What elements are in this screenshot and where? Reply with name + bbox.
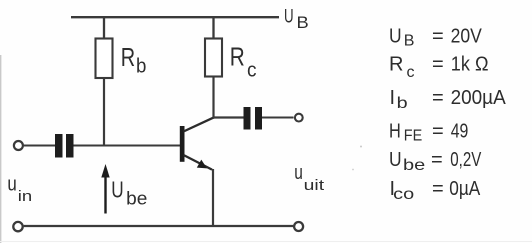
svg-text:1k Ω: 1k Ω <box>451 54 489 76</box>
terminal: output (open circle) <box>295 114 303 122</box>
svg-text:=: = <box>432 121 444 143</box>
svg-text:U: U <box>284 7 294 28</box>
label Ube <box>111 177 147 209</box>
label u_in <box>7 174 32 206</box>
wire: top supply rail UB <box>71 16 279 18</box>
svg-text:B: B <box>404 33 415 50</box>
svg-text:200µA: 200µA <box>451 87 507 109</box>
svg-text:be: be <box>126 189 147 209</box>
svg-text:R: R <box>389 54 403 76</box>
svg-text:=: = <box>432 26 444 48</box>
value line Ico = 0uA <box>390 178 481 203</box>
svg-text:I: I <box>390 87 396 109</box>
svg-text:b: b <box>136 56 146 78</box>
capacitor Cout <box>244 107 263 130</box>
svg-text:U: U <box>389 149 402 171</box>
svg-text:in: in <box>18 188 32 205</box>
wire: collector node to Cout <box>213 116 245 118</box>
svg-text:c: c <box>247 60 257 82</box>
transistor Q1 base bar <box>180 126 185 162</box>
transistor Q1 emitter lead <box>184 155 213 170</box>
svg-text:R: R <box>230 42 245 72</box>
value line Ube = 0,2V <box>389 149 482 174</box>
bottom scan edge <box>0 241 532 243</box>
svg-text:B: B <box>297 13 309 32</box>
svg-text:U: U <box>389 26 402 48</box>
svg-text:H: H <box>389 121 401 143</box>
left scan edge <box>0 55 2 243</box>
svg-text:FE: FE <box>404 128 422 145</box>
value line Ib = 200uA <box>390 87 507 112</box>
transistor Q1 emitter arrowhead <box>197 160 207 169</box>
svg-text:co: co <box>393 186 414 203</box>
wire: Cin to base of Q1 (through Rb node) <box>74 144 181 146</box>
svg-text:uit: uit <box>304 177 325 194</box>
transistor Q1 collector lead <box>184 117 214 131</box>
wire: rail to Rc top <box>212 17 214 39</box>
value line UB = 20V <box>389 26 482 50</box>
svg-text:u: u <box>7 174 16 196</box>
wire: input terminal to Cin <box>24 144 56 146</box>
svg-text:=: = <box>432 54 444 76</box>
svg-text:0,2V: 0,2V <box>450 149 481 171</box>
label Rc <box>230 42 257 82</box>
svg-text:20V: 20V <box>451 26 483 48</box>
resistor Rb <box>96 39 113 79</box>
svg-text:U: U <box>111 177 123 203</box>
terminal: bottom left (open circle) <box>13 222 22 231</box>
scan speckle <box>360 146 362 148</box>
svg-text:c: c <box>407 64 415 81</box>
wire: bottom ground rail <box>24 225 294 227</box>
value line Rc = 1kOhm <box>389 54 489 81</box>
wire: Rb bottom to base node <box>103 78 105 146</box>
svg-text:R: R <box>121 42 135 72</box>
terminal: input (open circle) <box>14 141 23 150</box>
resistor Rc <box>205 39 222 77</box>
label u_uit <box>294 162 325 194</box>
Ube arrow <box>101 164 109 214</box>
terminal: bottom right (open circle) <box>294 222 303 231</box>
svg-text:0µA: 0µA <box>449 178 481 200</box>
svg-text:b: b <box>397 95 408 112</box>
capacitor Cin <box>55 134 74 158</box>
svg-text:=: = <box>432 178 444 200</box>
svg-text:be: be <box>403 157 425 174</box>
svg-text:=: = <box>431 149 443 171</box>
wire: Cout to output terminal <box>262 116 294 118</box>
node UB label <box>284 7 309 32</box>
value line HFE = 49 <box>389 121 468 145</box>
svg-text:=: = <box>432 87 444 109</box>
wire: Rc bottom to collector node <box>212 77 214 119</box>
wire: rail to Rb top <box>103 17 105 39</box>
svg-text:u: u <box>294 162 303 184</box>
wire: emitter down to ground rail <box>212 169 214 226</box>
svg-text:49: 49 <box>451 121 469 143</box>
label Rb <box>121 42 147 78</box>
